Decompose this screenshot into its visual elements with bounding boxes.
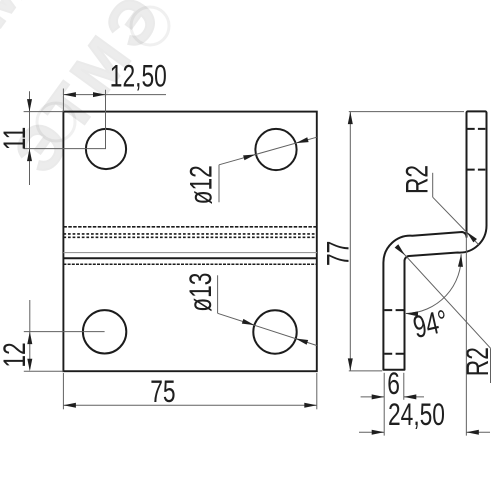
label diameter 12 arrow right [295, 137, 308, 145]
hidden hole line leg lower [384, 353, 403, 355]
bend line thick solid [63, 257, 316, 259]
dimension 24,50 line left [359, 431, 384, 433]
label diameter 12 leader [219, 137, 317, 165]
svg-text:ø13: ø13 [183, 273, 219, 312]
center line horizontal hole top-left [24, 148, 106, 150]
dimension 77 line [349, 112, 351, 371]
label R2 upper landing [432, 173, 434, 197]
center line vertical hole top-left [105, 90, 107, 149]
bend line dashed 2 [63, 233, 316, 235]
svg-text:77: 77 [320, 241, 356, 266]
dimension 75 extension left [62, 373, 64, 409]
dimension 77 extension bottom [349, 370, 382, 372]
label diameter 13 leader [218, 313, 317, 345]
dimension 24,50 arrow left [372, 430, 385, 435]
center line horizontal hole bottom-left [24, 331, 105, 333]
label diameter 13 arrow left [242, 319, 255, 328]
label diameter 13 shoulder [217, 275, 219, 313]
dimension 6 line right [404, 396, 424, 398]
label R2 lower arrow [395, 244, 407, 257]
svg-text:R2: R2 [459, 347, 495, 376]
dimension 77 extension top [349, 111, 464, 113]
dimension 77 arrow bottom [348, 358, 353, 371]
bend line dashed 1 [63, 226, 316, 228]
label diameter 12 shoulder [218, 165, 220, 203]
dimension 12,50 extension left [62, 89, 64, 112]
dimension 12 extension bottom [24, 370, 64, 372]
label diameter 12 arrow left [243, 152, 256, 160]
bend line thin solid [63, 252, 316, 254]
dimension 12 arrow bottom [27, 359, 32, 372]
dimension 75 extension right [316, 373, 318, 409]
watermark ETM logo text [1, 0, 178, 185]
angle 94 arrow top [458, 254, 464, 267]
dimension 12 arrow top [27, 332, 32, 345]
svg-text:R2: R2 [399, 165, 435, 194]
hidden hole line top bar upper [467, 128, 485, 130]
front view plate outline [63, 112, 316, 372]
dimension 24,50 arrow right [466, 430, 479, 435]
bend line dashed 4 [63, 263, 316, 265]
dimension 12,50 arrow right [93, 92, 106, 97]
dimension 75 line [63, 404, 316, 406]
dimension 12,50 arrow left [63, 92, 76, 97]
dimension 6 line left [361, 396, 385, 398]
hole bottom-left [83, 310, 126, 353]
svg-text:12: 12 [0, 342, 32, 367]
dimension 11 arrow top [27, 99, 32, 112]
hole top-right [255, 129, 296, 170]
dimension 6 arrow left [372, 394, 385, 399]
dimension 6 extension left [383, 373, 385, 436]
dimension 75 arrow right [304, 403, 317, 408]
dimension 11 line [29, 91, 31, 185]
label R2 lower leader [397, 246, 491, 348]
label R2 upper arrow [465, 230, 477, 242]
hidden hole line top bar lower [467, 169, 485, 171]
dimension 6 extension right [403, 373, 405, 400]
label R2 upper leader [433, 197, 479, 244]
angle 94 arc [406, 254, 461, 313]
dimension 12 line [29, 300, 31, 369]
dimension 77 arrow top [348, 112, 353, 125]
dimension 75 arrow left [63, 403, 76, 408]
svg-text:ø12: ø12 [183, 165, 219, 204]
svg-text:11: 11 [0, 127, 32, 151]
watermark ring 2 [131, 7, 169, 45]
hole bottom-right [253, 310, 296, 353]
hidden hole line leg upper [384, 309, 403, 311]
angle 94 arrow bottom [405, 311, 418, 316]
label R2 lower landing [490, 348, 492, 383]
side view Z profile [383, 111, 486, 369]
label diameter 13 arrow right [295, 336, 308, 345]
bend line dashed 3 [63, 236, 316, 238]
watermark ring 1 [37, 103, 75, 141]
svg-text:24,50: 24,50 [388, 396, 445, 432]
dimension 11 arrow bottom [27, 149, 32, 162]
dimension 11 extension top [24, 111, 64, 113]
dimension 6 arrow right [404, 394, 417, 399]
svg-text:12,50: 12,50 [110, 58, 167, 94]
dimension 24,50 extension right [465, 233, 467, 436]
dimension 24,50 line right [466, 431, 490, 433]
dimension 12,50 line [63, 94, 166, 96]
hole top-left [86, 129, 126, 169]
svg-text:75: 75 [150, 373, 175, 409]
